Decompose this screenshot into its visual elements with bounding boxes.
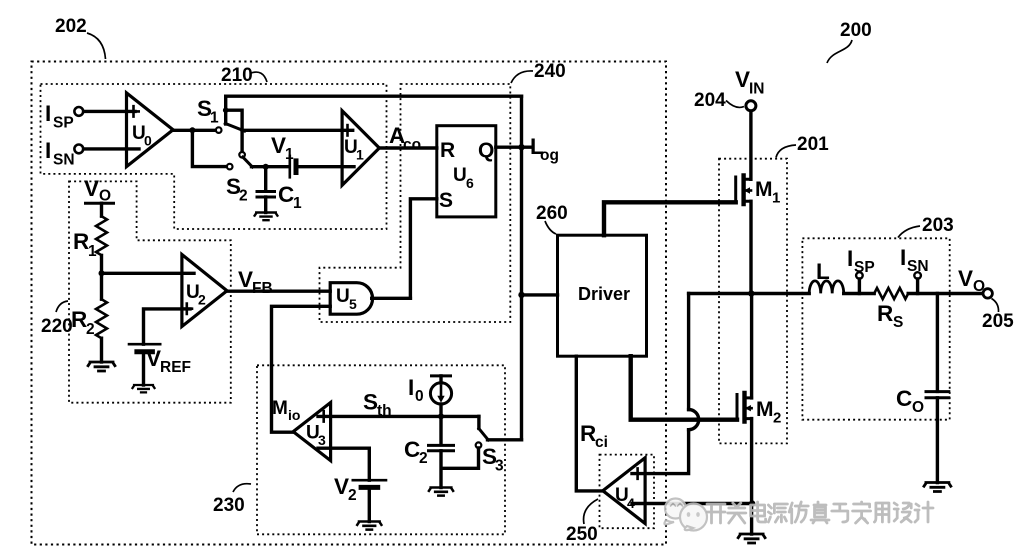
wire VO node down to CO [936,294,939,392]
svg-text:240: 240 [534,61,566,82]
svg-text:V: V [334,474,349,499]
svg-text:L: L [816,259,830,284]
svg-text:S: S [363,390,378,415]
node Log label [530,134,559,164]
svg-text:th: th [377,403,392,420]
node SW junction [748,290,754,296]
capacitor C1 [257,167,302,213]
box 240 dotted [320,84,511,322]
node U0 output junction [189,127,195,133]
svg-text:C: C [404,437,420,462]
watermark text [707,502,933,523]
wire U0 junction down to S2 contact [192,130,227,166]
svg-text:0: 0 [415,388,424,405]
node Log junction [518,144,524,150]
ground under CO [924,483,951,492]
wire M2 source to ground [750,419,753,534]
wire SW to inductor [689,292,810,295]
driver block U260 [558,235,647,356]
svg-text:REF: REF [160,359,191,376]
wire Driver top to M1 gate [604,202,736,235]
wire M1 source to SW node [749,201,752,293]
svg-text:2: 2 [198,292,206,308]
wire M2 drain to SW [750,294,753,398]
terminal ISN left [45,138,83,169]
wire U2 plus to VREF [144,309,191,344]
label 201 [776,134,829,158]
svg-text:203: 203 [922,215,954,236]
svg-text:C: C [896,386,912,411]
wire ISP stub [858,279,861,294]
wire S3 blade to Log line [488,438,522,441]
node M2 source junction [749,500,755,506]
terminal VO right [958,266,992,298]
wire Q output to Log [496,145,531,148]
svg-text:Driver: Driver [578,284,630,304]
box 203 dotted [802,238,949,419]
wire U5 lower input to Mio node [272,306,331,432]
wire Rs to VO terminal [908,292,983,295]
transistor M2 [737,393,781,427]
svg-text:3: 3 [495,458,504,475]
svg-text:og: og [540,147,559,164]
terminal VO top left [84,176,114,205]
wire R2 to ground [100,338,103,362]
wire ISP to U0 [84,110,135,113]
wire hop over M2 gate [689,410,699,430]
svg-text:S: S [439,189,453,212]
svg-text:S: S [893,314,903,331]
wire S1 to U1 plus input [242,129,353,132]
label 240 [511,61,566,83]
svg-text:200: 200 [840,20,872,41]
label 205 [982,299,1014,333]
svg-text:2: 2 [239,188,248,205]
svg-text:2: 2 [419,450,428,467]
capacitor C2 [404,437,454,467]
svg-text:io: io [288,407,300,423]
box 201 dotted [719,159,787,444]
svg-text:210: 210 [221,65,253,86]
svg-text:250: 250 [566,524,598,545]
svg-text:co: co [403,137,421,154]
svg-text:Q: Q [478,139,494,162]
op-amp U3 [293,403,330,461]
wire U3 minus input to V2 [318,448,369,480]
wire U3 plus input Sth [318,415,479,418]
label 203 [898,215,954,238]
node Aco label [389,123,421,154]
wire VO to R1 [100,203,103,216]
wire R1 to R2 [100,255,103,299]
svg-text:O: O [973,278,985,295]
svg-text:6: 6 [466,175,474,191]
svg-text:ci: ci [595,434,608,451]
wire C2 to ground [439,451,442,488]
box 250 dotted [600,455,655,529]
box 230 dotted [257,365,505,534]
svg-text:201: 201 [797,134,829,155]
node S1 junction [223,107,229,113]
wire Driver bottom to Rci and U4 output [576,356,603,491]
svg-text:1: 1 [285,146,294,163]
wire U4 plus input to SW node with hop [632,430,689,474]
wire Log line to Driver [522,293,558,296]
svg-text:R: R [73,229,89,254]
svg-text:202: 202 [55,16,87,37]
AND gate U5 [330,283,372,315]
ground under M2 [738,534,765,543]
wire S3 contact to C2 bottom [443,448,479,468]
svg-text:V: V [735,67,750,92]
svg-text:1: 1 [88,243,97,260]
wire ISN to U0 [84,147,139,150]
terminal ISN right [900,245,929,279]
wire S2 to C1 node and V1 [252,165,288,168]
resistor R1 [73,216,107,260]
svg-text:R: R [71,307,87,332]
wire top feedback from S1 to Log line [226,94,522,97]
box 202 outer dashed boundary [32,62,667,545]
terminal VIN [735,67,765,111]
svg-text:C: C [278,182,294,207]
op-amp U1 [342,111,379,186]
wire I0 to Sth node and C2 [439,404,442,444]
svg-text:220: 220 [41,316,73,337]
svg-text:1: 1 [293,195,302,212]
resistor RS [874,288,908,331]
svg-text:205: 205 [982,311,1014,332]
svg-text:IN: IN [749,81,765,98]
wire L to Rs [844,292,875,295]
wire U2 output VFB [226,290,330,293]
label 200 [827,20,872,63]
wire VIN to M1 drain [749,111,752,179]
svg-text:I: I [408,375,414,400]
ground under C1 [255,213,278,221]
svg-text:FB: FB [252,280,273,297]
wire S1 junction to S2 pivot [226,110,242,152]
transistor M1 [736,176,781,207]
svg-text:260: 260 [536,203,568,224]
resistor R2 [71,299,107,338]
ground under C2 [429,488,453,496]
node VFB label [238,267,273,297]
switch S2 [226,152,252,205]
ground under VREF [133,385,155,392]
node Sth junction [438,413,444,419]
svg-text:1: 1 [772,190,780,207]
node Mio label [272,398,300,423]
watermark wechat logo [664,499,707,531]
svg-text:SP: SP [53,115,74,132]
label 210 [221,65,267,86]
node Sth label [363,390,392,420]
capacitor CO [896,386,949,416]
terminal ISP left [45,101,83,132]
wire Driver bottom to M2 gate [631,356,737,420]
battery VREF [129,344,191,376]
label 260 [536,203,568,234]
svg-text:3: 3 [318,432,326,448]
svg-text:R: R [877,301,893,326]
svg-text:V: V [271,133,286,158]
node driver input junction [518,292,524,298]
wire Log vertical line [520,96,523,440]
box 210 dotted [41,84,387,229]
label 230 [213,484,251,516]
svg-text:U: U [336,286,350,307]
svg-text:I: I [900,245,906,270]
svg-text:V: V [84,176,99,201]
switch S1 [197,96,245,133]
svg-text:SN: SN [907,258,929,275]
ground under V2 [357,522,381,530]
inductor L [809,259,844,293]
node C1 junction [263,164,269,170]
terminal ISP right [847,246,875,279]
svg-text:R: R [580,421,596,446]
svg-text:SN: SN [53,152,75,169]
wire hop top to SW [687,294,690,410]
wire junction to U2 minus [102,272,195,275]
wire S input of U6 [410,199,436,298]
op-amp U2 [182,255,227,327]
ground under R2 [88,362,115,371]
svg-text:R: R [440,139,455,162]
wire U0 output [172,129,216,132]
wire U1 output Aco [379,146,437,149]
label 202 [55,16,106,59]
svg-text:V: V [146,346,161,371]
current source I0 [408,375,452,405]
box 220 dotted [69,181,231,402]
node feedback divider junction [99,270,105,276]
svg-text:V: V [958,266,973,291]
svg-text:2: 2 [348,487,357,504]
svg-text:230: 230 [213,495,245,516]
svg-text:I: I [45,101,51,126]
op-amp U4 [603,458,645,524]
svg-text:I: I [45,138,51,163]
svg-text:2: 2 [773,410,781,427]
svg-text:M: M [755,178,773,201]
svg-text:2: 2 [86,321,95,338]
wire V1 to U1 minus input [299,165,355,168]
wire ISN stub [916,279,919,294]
label 250 [566,499,598,545]
svg-text:1: 1 [210,110,219,127]
svg-text:U: U [453,165,467,186]
svg-text:204: 204 [694,90,726,111]
wire U5 output [372,297,411,300]
battery V1 [271,133,296,177]
svg-text:M: M [756,398,774,421]
op-amp U0 [127,93,174,167]
svg-text:5: 5 [349,296,357,312]
svg-text:I: I [847,246,853,271]
svg-text:0: 0 [144,133,152,149]
svg-text:O: O [912,399,924,416]
wire VREF to ground [142,352,145,385]
svg-text:1: 1 [356,147,364,163]
svg-text:M: M [272,398,288,419]
svg-text:SP: SP [854,259,875,276]
node Rci label [580,421,608,451]
battery V2 [334,474,386,504]
switch S3 [476,416,504,474]
svg-text:V: V [238,267,253,292]
wire CO to ground [936,398,939,483]
label 204 [694,90,744,111]
wire V2 to ground [368,487,371,521]
wire U4 minus input to M2 source [632,502,752,505]
label 220 [41,301,73,337]
flip-flop U6 [437,126,496,217]
